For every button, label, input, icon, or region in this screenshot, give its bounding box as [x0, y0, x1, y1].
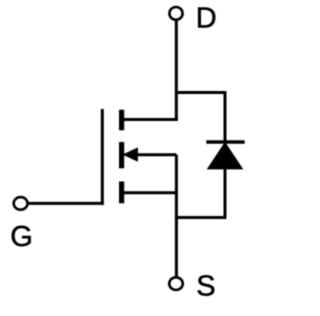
terminal G [14, 197, 28, 210]
transistor Q1 body arrow [124, 148, 138, 161]
svg-text:G: G [10, 221, 33, 253]
transistor Q1 gate pole [101, 109, 104, 205]
wire diode bottom to source node [175, 216, 227, 219]
transistor Q1 drain channel bar [119, 110, 124, 131]
wire drain branch to diode cathode [176, 93, 225, 144]
transistor Q1 source channel bar [119, 182, 124, 204]
wire G to gate [28, 202, 104, 205]
wire drain to MOSFET top bar [122, 118, 178, 121]
wire diode anode down [224, 167, 227, 219]
wire source bar connection [122, 191, 178, 194]
diode body-diode cathode bar [206, 140, 244, 144]
svg-text:S: S [196, 270, 215, 302]
diode body-diode anode triangle [208, 143, 243, 169]
terminal D [169, 7, 182, 20]
svg-text:D: D [196, 3, 217, 35]
wire source vertical to S [175, 155, 178, 277]
wire drain vertical [175, 20, 178, 121]
terminal S [169, 277, 183, 290]
transistor Q1 body channel bar [119, 142, 124, 168]
wire body connection [136, 153, 176, 156]
